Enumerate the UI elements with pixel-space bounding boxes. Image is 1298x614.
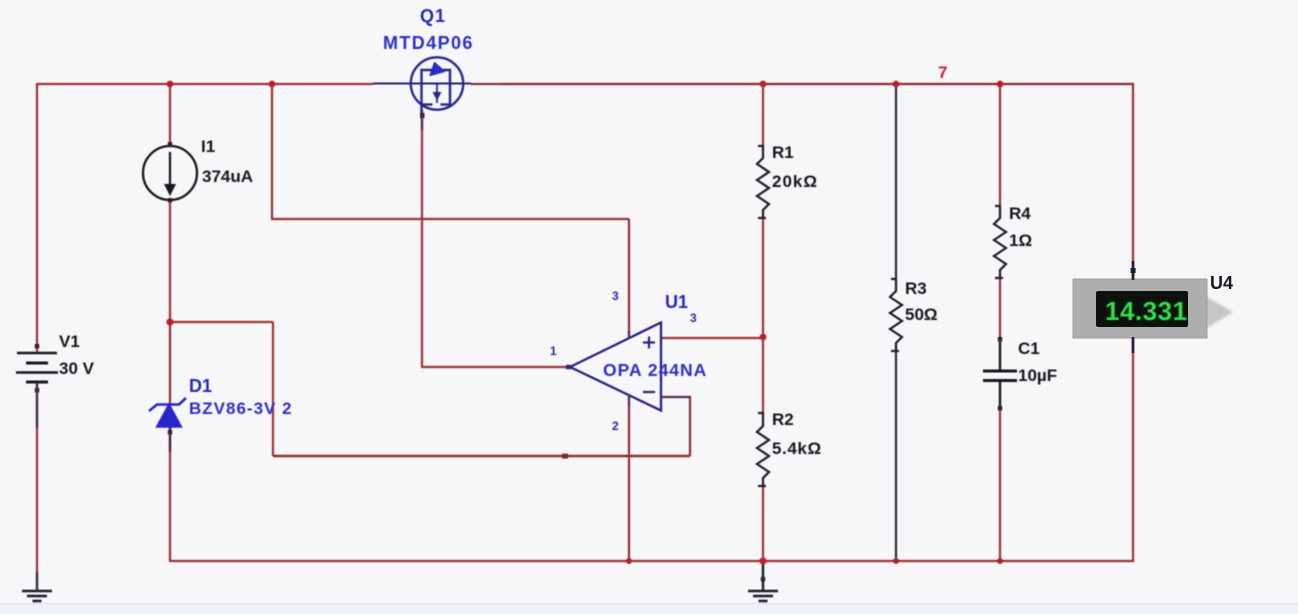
wire feedback vertical left [272,322,274,456]
wire feedback bottom horizontal [273,455,690,457]
svg-text:U1: U1 [665,292,688,312]
pin tick battery top [35,344,39,348]
pin tick ground2 stem [761,577,765,581]
node dot bottom rail / C1 [997,558,1003,564]
node dot top rail / R1 [760,81,767,88]
svg-text:U4: U4 [1210,273,1233,293]
svg-text:3: 3 [690,311,697,325]
dark lead segment below battery [36,383,38,428]
wire opamp V+ branch vertical from top rail [271,84,273,220]
node dot top rail / R4 [997,81,1004,88]
svg-text:R4: R4 [1009,204,1031,223]
node dot top rail / R3 [893,81,900,88]
pin tick battery bottom [35,388,39,392]
svg-text:1: 1 [550,344,557,358]
pin tick C1 bottom [998,406,1002,410]
wire left rail upper (V1 to top rail) [36,83,38,353]
svg-text:BZV86-3V 2: BZV86-3V 2 [189,399,293,418]
op-amp U1 [570,323,661,411]
battery V1 [16,353,58,382]
wire opamp V+ pin drop [628,219,630,339]
wire feedback vertical right to minus input [689,397,691,456]
Q1 gate pin blob [420,113,425,118]
svg-text:14.331: 14.331 [1105,296,1188,326]
pin tick C1 top [998,337,1002,341]
wire C1 to bottom rail [999,409,1001,562]
resistor R1 [757,146,769,218]
wire zener node to D1 [169,322,171,404]
svg-text:C1: C1 [1018,339,1040,358]
wire zener node to feedback corner [169,321,273,323]
wire opamp V- pin to bottom rail [628,395,630,562]
Q1 substrate arrow [430,63,445,76]
resistor R2 [757,413,769,486]
resistor R3 [890,279,902,351]
wire R4 column top [999,84,1001,206]
node dot bottom rail / opamp V- [626,558,632,564]
wire R1 to node to R2 [762,217,764,413]
svg-text:50Ω: 50Ω [905,305,938,324]
wire R3 column bottom [895,351,897,561]
svg-text:374uA: 374uA [202,167,253,186]
svg-text:7: 7 [938,63,947,82]
wire left rail lower (V1 to ground) [36,382,38,591]
svg-text:30 V: 30 V [59,359,95,378]
node dot bottom rail / ground [759,557,766,564]
node dot top rail / I1 [167,81,174,88]
wire opamp output to gate column [421,366,570,368]
node dot top rail / opamp V+ branch [269,81,276,88]
wire right column bottom (U4 to rail) [1132,337,1134,562]
wire Q1 gate down [421,110,423,368]
wire R1 column top [762,84,764,146]
dark lead segment opamp V- pin [628,395,630,406]
svg-text:OPA 244NA: OPA 244NA [603,360,707,380]
junction pad on feedback wire [562,454,568,459]
dark lead segment below zener [169,427,171,452]
svg-text:1Ω: 1Ω [1009,231,1032,250]
svg-text:10µF: 10µF [1018,366,1057,385]
svg-text:2: 2 [612,419,619,433]
bottom edge tint strip [0,604,1298,614]
wire right column top (to U4) [1132,83,1134,280]
svg-text:R1: R1 [772,143,794,162]
capacitor C1 [983,340,1017,410]
wire opamp V+ branch horizontal [272,218,629,220]
pin tick I1 top [168,142,172,146]
svg-text:R2: R2 [772,410,794,429]
svg-text:Q1: Q1 [420,6,446,26]
wire bottom rail [170,560,1134,562]
node dot zener top [166,318,173,325]
svg-text:5.4kΩ: 5.4kΩ [772,439,822,458]
svg-text:R3: R3 [905,279,927,298]
dark lead segment left rail near ground [36,572,38,591]
svg-text:D1: D1 [189,376,212,396]
node dot bottom rail / R3 [893,558,899,564]
wire R2 to bottom rail [762,486,764,562]
resistor R4 [994,206,1006,278]
multimeter U4 [1073,261,1233,353]
ground (bottom middle) [748,561,778,601]
wire D1 to bottom rail [169,427,171,562]
ground (left, below V1) [22,591,52,601]
pin tick D1 anode [168,430,172,434]
current source I1 [143,146,197,200]
wire top rail right of Q1 [501,83,1134,85]
svg-text:I1: I1 [201,137,215,156]
pin tick I1 bottom [168,198,172,202]
wire R4 to C1 [999,278,1001,340]
wire R3 column top [895,84,897,279]
wire top rail left (node to Q1) [37,83,373,85]
wire I1 branch top [169,84,171,147]
dark lead segment gate below Q1 [421,110,423,130]
svg-text:3: 3 [612,289,619,303]
dark lead segment opamp V+ pin [628,330,630,339]
node dot divider / plus input [760,334,767,341]
svg-text:V1: V1 [59,332,80,351]
wire I1 to zener node [169,200,171,322]
transistor Q1 (PMOS) [373,57,505,116]
svg-text:MTD4P06: MTD4P06 [383,33,474,53]
wire plus input pin to divider node [661,337,764,339]
pin tick opamp output [566,365,571,369]
wire minus input pin [661,396,691,398]
svg-text:20kΩ: 20kΩ [772,172,818,191]
zener diode D1 [149,398,186,427]
